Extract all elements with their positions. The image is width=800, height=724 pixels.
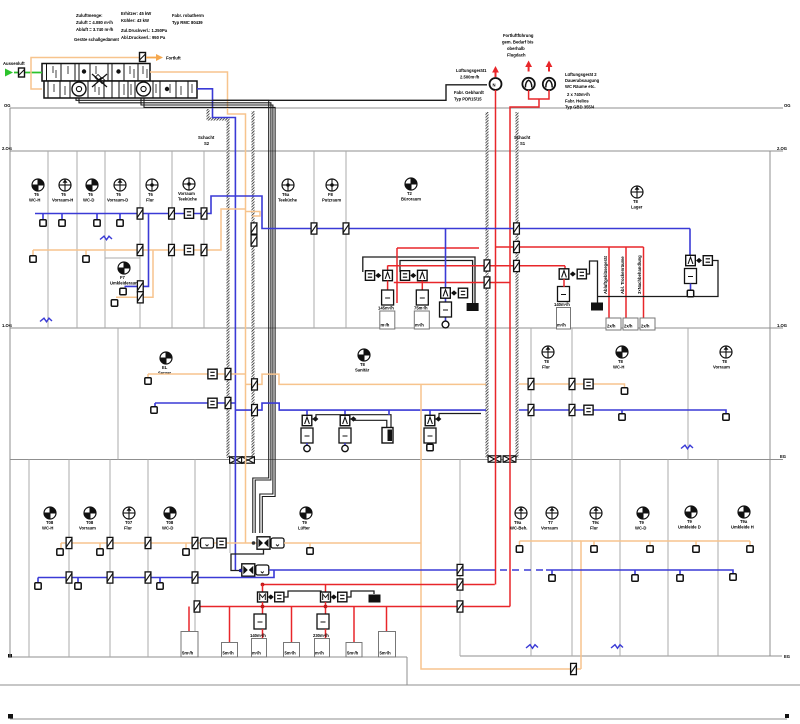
wall [229, 460, 231, 554]
ground line left [10, 656, 407, 658]
aux box M1 [275, 592, 284, 602]
vent symbol Lager 2.OG right [631, 186, 643, 198]
wall [104, 151, 106, 328]
vent symbol Vorraum-H [59, 179, 71, 191]
svg-text:Abl.Druckverl.: 950 Pa: Abl.Druckverl.: 950 Pa [121, 35, 166, 40]
svg-text:Abluft = 3.740 m³/h: Abluft = 3.740 m³/h [76, 27, 114, 32]
meter orange right [584, 379, 593, 389]
svg-text:1.OG: 1.OG [2, 323, 12, 328]
svg-text:2.OG: 2.OG [2, 146, 12, 151]
svg-text:5m³/h: 5m³/h [380, 651, 392, 656]
bottom tick left [8, 714, 13, 719]
vav assembly 2: filter box [400, 271, 409, 281]
damper blue EG wall [107, 572, 113, 583]
svg-text:T8: T8 [544, 359, 550, 364]
svg-text:Fabr. Gebhardt: Fabr. Gebhardt [454, 90, 484, 95]
damper on orange bus [201, 244, 207, 255]
shaft S2 wall upper left [207, 109, 210, 120]
damper red B left end [194, 601, 200, 612]
Fortluft orange arrow [146, 57, 156, 59]
svg-text:5m³/h: 5m³/h [347, 651, 359, 656]
svg-text:EG: EG [784, 654, 790, 659]
AHU cooler dot [116, 69, 120, 73]
svg-text:WC-H: WC-H [29, 198, 40, 203]
svg-text:T9a: T9a [740, 519, 748, 524]
wire to roof fan [213, 85, 487, 101]
sub-room blue tap square [120, 288, 126, 294]
damper orange at wall 531 [528, 378, 534, 389]
blue drop to sub-room [125, 214, 149, 287]
orange end tap square [621, 388, 627, 394]
svg-text:WC-H: WC-H [42, 526, 53, 531]
svg-text:T9: T9 [639, 520, 645, 525]
damper on sub-room orange [137, 292, 143, 303]
svg-text:T08: T08 [46, 520, 54, 525]
svg-text:Teeküche: Teeküche [278, 198, 298, 203]
damper on blue bus at wall [343, 223, 349, 234]
svg-text:F7: F7 [120, 275, 126, 280]
svg-text:T6a: T6a [282, 192, 290, 197]
blue assembly outlet [442, 321, 449, 328]
svg-text:Erhitzer: 45 kW: Erhitzer: 45 kW [121, 11, 151, 16]
wall [28, 460, 30, 658]
sink box mid cluster [467, 304, 478, 311]
vent symbol EG WC-D [637, 507, 649, 519]
svg-text:2x/h: 2x/h [641, 324, 650, 329]
vent symbol EG 3 [123, 507, 135, 519]
red bus 2 [564, 266, 566, 270]
svg-text:OG: OG [784, 103, 791, 108]
aux box M2 [338, 592, 347, 602]
svg-text:T6: T6 [61, 192, 67, 197]
svg-text:WC-Beh.: WC-Beh. [510, 526, 527, 531]
blue assembly filter [458, 288, 467, 298]
bottom tick right [785, 714, 789, 718]
svg-text:Typ RMC 80439: Typ RMC 80439 [172, 20, 203, 25]
sub-room ceiling 2.OG [105, 257, 140, 259]
sink box right cluster [592, 303, 603, 310]
damper orange EG wall [145, 537, 151, 548]
svg-text:EL: EL [162, 365, 168, 370]
vent symbol Flur 1.OG [542, 346, 554, 358]
AHU dot bottom [165, 87, 169, 91]
wall [47, 151, 49, 328]
blue tap [77, 578, 79, 584]
orange riser to right bus [581, 541, 750, 669]
black link duct1 fan to duct2 fan [231, 549, 264, 571]
svg-text:Vorraum: Vorraum [541, 526, 558, 531]
controller right cluster [558, 287, 570, 302]
blue bus 1.OG left [155, 402, 235, 404]
svg-text:S2: S2 [204, 141, 210, 146]
damper orange EG wall [192, 537, 198, 548]
svg-text:Umkleide D: Umkleide D [678, 525, 701, 530]
wall [68, 460, 70, 658]
svg-text:Vorraum: Vorraum [713, 365, 730, 370]
controller under M1 [254, 614, 266, 629]
red stub controller [563, 279, 565, 287]
outlet drop 6 [353, 607, 355, 643]
junction dot on line B [324, 605, 328, 609]
motor box M1 [258, 592, 268, 602]
svg-text:140m³/h: 140m³/h [250, 633, 266, 638]
wall [571, 460, 573, 657]
svg-text:2 x 740m³/h: 2 x 740m³/h [567, 92, 590, 97]
svg-text:Lüftungsgerät1: Lüftungsgerät1 [456, 68, 487, 73]
wall [313, 151, 315, 328]
svg-text:Flur: Flur [124, 526, 132, 531]
wall [345, 151, 347, 328]
exhaust fan 2 [543, 78, 555, 90]
filter box right cluster [577, 269, 586, 279]
red feed top line [397, 247, 479, 249]
black bridge M2 to sink [347, 591, 374, 597]
damper on blue bus at shaft S1 [514, 223, 520, 234]
outlet drop 5 under M2 [315, 639, 330, 658]
controller box assembly 1 [382, 290, 394, 305]
vent symbol WC-H 1.OG [616, 346, 628, 358]
AHU heat-exchanger cross [92, 74, 107, 87]
damper on blue bus [169, 208, 175, 219]
svg-text:1.OG: 1.OG [777, 323, 787, 328]
orange bus 1.OG right [519, 384, 625, 388]
sub-room vent symbol [118, 262, 130, 274]
damper red bus1 at S1 [514, 241, 520, 252]
orange bus 2.OG left [33, 209, 246, 250]
svg-text:T8: T8 [633, 199, 639, 204]
Aussenluft green arrow [14, 72, 42, 74]
duct pair 2 [141, 98, 273, 533]
blue main bus EG right [269, 569, 488, 571]
svg-text:2x/h: 2x/h [624, 324, 633, 329]
svg-text:Dauerabsaugung: Dauerabsaugung [565, 78, 600, 83]
vav assembly 1.OG a4 [429, 410, 431, 415]
extract air orange from AHU to shaft [150, 72, 246, 543]
wall [530, 460, 532, 657]
shaft S2 wall jog [207, 118, 230, 121]
blue tap [37, 578, 39, 584]
supply fan label box [271, 538, 284, 548]
red drop 3 [643, 247, 645, 318]
svg-text:m³/h: m³/h [252, 651, 261, 656]
blue tap [119, 214, 121, 221]
vent symbol EG Vorraum [546, 507, 558, 519]
svg-text:3×Nachbehandlung: 3×Nachbehandlung [637, 255, 642, 294]
vent symbol Vorraum 1.OG [720, 346, 732, 358]
damper on blue bus [137, 208, 143, 219]
svg-text:Büroraum: Büroraum [401, 197, 421, 202]
vent symbol EG 1 [44, 507, 56, 519]
vav duct box assembly 2 [414, 311, 429, 329]
black link a2 to a3 [350, 419, 387, 428]
svg-text:Putzraum: Putzraum [322, 198, 341, 203]
vav assembly 1: filter box [365, 271, 374, 281]
blue bus 2.OG left [35, 196, 690, 229]
wall [619, 460, 621, 657]
vent symbol WC-D [86, 179, 98, 191]
svg-text:T9: T9 [302, 520, 308, 525]
outlet drop 4 [291, 607, 293, 643]
svg-text:WC-D: WC-D [162, 526, 173, 531]
vent symbol Vorraum-D [114, 179, 126, 191]
svg-text:T8: T8 [618, 359, 624, 364]
svg-text:WC-D: WC-D [635, 526, 646, 531]
orange tap [32, 250, 34, 256]
orange jog right of shaft [246, 212, 261, 217]
damper on orange bus [169, 244, 175, 255]
svg-text:m³/h: m³/h [381, 323, 390, 328]
diamond [696, 258, 702, 263]
orange tap square [147, 374, 149, 378]
bottom line [10, 718, 787, 720]
outlet drop 2 [229, 607, 231, 643]
outlet box 1 [606, 318, 621, 330]
vav assembly 1.OG a1 [306, 410, 308, 415]
AHU supply fan [72, 82, 86, 96]
svg-text:5m³/h: 5m³/h [285, 651, 297, 656]
shaft S2 left wall [227, 119, 230, 458]
red bus to shaft upper [388, 265, 565, 267]
supply air blue from AHU to shaft [197, 89, 235, 571]
meter blue right [584, 405, 593, 415]
damper orange right of S2 [252, 379, 258, 390]
blue stub [690, 284, 692, 291]
outlet drop 3 under M1 [252, 639, 267, 658]
wall [139, 151, 141, 328]
svg-text:m³/h: m³/h [315, 651, 324, 656]
svg-text:T6: T6 [88, 192, 94, 197]
damper blue EG wall [192, 572, 198, 583]
svg-text:T9: T9 [687, 519, 693, 524]
svg-text:WC Räume etc.: WC Räume etc. [565, 84, 595, 89]
red bus to shaft lower [394, 282, 510, 284]
filter box far right [703, 256, 712, 266]
duct box right cluster [557, 308, 571, 330]
blue tap [61, 214, 63, 221]
outlet drop 1 [188, 607, 190, 632]
svg-text:Flugdach: Flugdach [507, 53, 526, 58]
svg-text:T9c: T9c [592, 520, 600, 525]
svg-text:Fortluft: Fortluft [166, 56, 181, 61]
AHU heater dot [82, 69, 86, 73]
svg-text:Kühler: 43 kW: Kühler: 43 kW [121, 18, 149, 23]
wall [194, 460, 196, 658]
blue end tap square [723, 414, 729, 420]
svg-text:oberhalb: oberhalb [507, 46, 525, 51]
vent symbol EG 4 [164, 507, 176, 519]
svg-text:5m³/h: 5m³/h [182, 651, 194, 656]
break symbol basement 2 [611, 645, 623, 649]
M assembly 1 red stub [262, 585, 264, 593]
damper red A at wall 460 [457, 579, 463, 590]
wall [147, 460, 149, 658]
svg-text:145m³/h: 145m³/h [378, 306, 394, 311]
damper red B at wall 460 [457, 601, 463, 612]
svg-text:Vorraum-H: Vorraum-H [52, 198, 73, 203]
svg-text:T8: T8 [722, 359, 728, 364]
orange tap [185, 543, 187, 549]
damper on blue bus right of shaft [251, 223, 257, 234]
blue tap square [154, 403, 156, 407]
blue assembly controller [440, 302, 452, 317]
damper on blue bus [201, 208, 207, 219]
blue branch to right rooms [235, 403, 486, 410]
vent symbol EG Flur [590, 507, 602, 519]
Fortluft damper box [140, 53, 146, 62]
floor line EG [10, 459, 783, 461]
svg-text:Vorraum-D: Vorraum-D [107, 198, 128, 203]
red stub to outlet [262, 629, 264, 639]
fire damper S1 bottom right [503, 456, 516, 462]
controller box assembly 2 [416, 290, 428, 305]
svg-text:OG: OG [4, 103, 11, 108]
shaft S1 right wall [516, 112, 519, 458]
meter on blue bus [184, 209, 193, 219]
svg-text:Vorraum: Vorraum [178, 191, 195, 196]
orange bus EG mid to riser [284, 542, 421, 544]
blue drop mid cluster [445, 229, 447, 323]
svg-text:Typ GBD 355/4: Typ GBD 355/4 [565, 105, 595, 110]
duct pair 1 [76, 98, 269, 533]
blue tap right [634, 570, 636, 575]
outlet box 3 [640, 318, 655, 330]
damper on sub-room blue [137, 281, 143, 292]
A-box [383, 270, 393, 280]
junction dot orange [252, 541, 256, 545]
damper blue at wall 531 [528, 404, 534, 415]
black control loop outer [363, 257, 475, 303]
svg-text:Fortluftführung: Fortluftführung [503, 33, 534, 38]
ground line right [460, 655, 782, 657]
damper red at S1 wall lower [484, 277, 490, 288]
svg-text:m³/h: m³/h [557, 323, 566, 328]
blue tap [96, 214, 98, 221]
svg-text:T6: T6 [34, 192, 40, 197]
meter on orange bus [184, 245, 193, 255]
blue tap [42, 214, 44, 221]
label box on orange EG [201, 538, 214, 548]
supply fan unit EG (from duct pair) [257, 537, 270, 549]
frame right wall [769, 151, 771, 656]
svg-text:gem. Bedarf bis: gem. Bedarf bis [502, 40, 534, 45]
damper on orange bus [137, 244, 143, 255]
svg-text:Fabr. Helios: Fabr. Helios [565, 99, 589, 104]
svg-text:Flur: Flur [146, 198, 154, 203]
red drop assembly 2 [421, 281, 423, 291]
diamond [268, 594, 274, 599]
svg-text:WC-D: WC-D [83, 198, 94, 203]
vent symbol EL Server [160, 352, 172, 364]
diamond [451, 290, 457, 295]
roof fan N [490, 78, 502, 90]
blue tap square [621, 410, 623, 414]
diamond [375, 273, 381, 278]
fire damper S2 bottom left [230, 457, 243, 463]
damper orange at S2 wall [225, 368, 231, 379]
floor line roof 06 [10, 107, 783, 109]
AHU filter slashes [53, 66, 192, 95]
svg-text:Lüftungsgerät 2: Lüftungsgerät 2 [565, 72, 597, 77]
AHU top row casing [42, 64, 150, 82]
shaft S2 right wall [252, 111, 255, 458]
junction dot red A [261, 583, 265, 587]
diamond [570, 271, 576, 276]
AHU bottom row casing [44, 81, 197, 98]
svg-text:N: N [493, 83, 496, 88]
red M2 down to controller [325, 602, 327, 614]
vent symbol Putzraum [326, 179, 338, 191]
orange drop to sub-room [116, 250, 153, 297]
vent symbol Teekueche2 [282, 179, 294, 191]
floor line 2.OG [10, 150, 783, 152]
svg-text:Schacht: Schacht [198, 135, 215, 140]
outlet drop 7 [386, 607, 388, 632]
orange tap right [649, 541, 651, 546]
long black interconnect wire [598, 261, 719, 297]
wall [203, 151, 205, 328]
frame left wall [9, 108, 11, 657]
svg-text:Flur: Flur [542, 365, 550, 370]
red drop 1 [608, 247, 610, 318]
motor box M2 [321, 592, 331, 602]
svg-text:Zuluft = 4.080 m³/h: Zuluft = 4.080 m³/h [76, 20, 113, 25]
svg-text:5m³/h: 5m³/h [223, 651, 235, 656]
wall [109, 460, 111, 658]
blue bus 1.OG right [519, 410, 726, 414]
svg-text:WC-H: WC-H [613, 365, 624, 370]
basement line [0, 684, 800, 686]
wall [76, 151, 78, 328]
vav assembly 1.OG a2 [344, 410, 346, 415]
M assembly 2 red stub [325, 585, 327, 593]
svg-text:Vorraum: Vorraum [79, 526, 96, 531]
damper below on shaft wall [251, 235, 257, 246]
wall [687, 328, 689, 460]
Aussenluft damper box [19, 68, 25, 77]
damper blue at S2 wall [225, 397, 231, 408]
red drop assembly 1 [387, 281, 389, 291]
blue drop far right [689, 229, 691, 266]
blue tap right [551, 570, 553, 575]
orange tap [99, 543, 101, 549]
vent symbol EG Umkleide D [685, 506, 697, 518]
red riser 1 from fan N [495, 90, 497, 585]
vent symbol EG 2 [84, 507, 96, 519]
damper orange at wall 572 [569, 378, 575, 389]
shaft S1 left wall [486, 112, 489, 458]
orange riser 1.OG to basement [421, 384, 581, 669]
break symbol 1.OG right [681, 445, 693, 449]
meter on orange 1.OG left [208, 369, 217, 379]
outlet square far right [687, 290, 693, 296]
A-box far right [686, 255, 696, 265]
svg-text:F8: F8 [328, 192, 334, 197]
AHU exhaust fan [137, 82, 151, 96]
red M1 down to controller [262, 602, 264, 614]
svg-text:Typ PDR15/15: Typ PDR15/15 [454, 97, 482, 102]
black wire from right cluster [587, 261, 598, 303]
orange tap [85, 250, 87, 256]
extract fan unit EG [242, 564, 255, 576]
black bridge M1 to M2 [284, 591, 321, 597]
damper orange EG wall [66, 537, 72, 548]
blue end tap [730, 574, 736, 580]
damper on orange lower run [571, 663, 577, 674]
vent symbol EG WC-Beh [515, 507, 527, 519]
svg-text:230m³/h: 230m³/h [313, 633, 329, 638]
vent symbol Flur [146, 179, 158, 191]
ground tick left [8, 654, 12, 658]
